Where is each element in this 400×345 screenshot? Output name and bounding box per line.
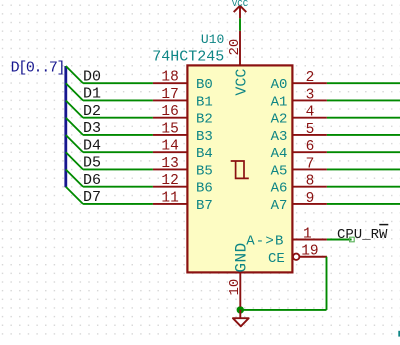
bus entry D4 bbox=[66, 135, 83, 152]
wire pin1 to CPU_RW bbox=[327, 239, 352, 241]
svg-text:11: 11 bbox=[161, 190, 178, 206]
pin 3 line (A1) bbox=[292, 99, 327, 101]
pin 15 line (B3) bbox=[153, 134, 188, 136]
svg-text:D5: D5 bbox=[83, 155, 101, 172]
svg-text:9: 9 bbox=[306, 191, 315, 207]
svg-text:VCC: VCC bbox=[232, 0, 249, 9]
wire A5 to edge bbox=[327, 168, 400, 170]
svg-text:D7: D7 bbox=[83, 189, 101, 206]
svg-text:A6: A6 bbox=[271, 181, 288, 197]
wire pin10 to junction bbox=[239, 307, 241, 310]
bus entry D7 bbox=[66, 187, 83, 204]
svg-text:A4: A4 bbox=[271, 146, 288, 162]
wire A2 to edge bbox=[327, 117, 400, 119]
bus entry D5 bbox=[66, 152, 83, 169]
svg-text:B1: B1 bbox=[196, 94, 213, 110]
svg-text:15: 15 bbox=[161, 121, 178, 137]
svg-text:D2: D2 bbox=[83, 103, 101, 120]
svg-text:A0: A0 bbox=[271, 77, 288, 93]
svg-text:10: 10 bbox=[227, 279, 243, 296]
VCC power symbol arrow bbox=[234, 6, 247, 19]
wire D7 bbox=[83, 203, 153, 205]
svg-text:B6: B6 bbox=[196, 181, 213, 197]
svg-text:D1: D1 bbox=[83, 86, 101, 103]
svg-text:A2: A2 bbox=[271, 112, 288, 128]
svg-text:VCC: VCC bbox=[234, 69, 251, 96]
svg-text:D[0..7]: D[0..7] bbox=[11, 60, 65, 77]
wire D4 bbox=[83, 151, 153, 153]
wire D2 bbox=[83, 117, 153, 119]
buffer glyph inside body bbox=[231, 161, 249, 178]
svg-text:18: 18 bbox=[161, 70, 178, 86]
svg-text:A5: A5 bbox=[271, 163, 288, 179]
wire A6 to edge bbox=[327, 186, 400, 188]
pin 1 line (A->B) bbox=[292, 239, 327, 241]
bus entry D6 bbox=[66, 169, 83, 186]
svg-text:5: 5 bbox=[306, 122, 315, 138]
svg-text:A->B: A->B bbox=[246, 234, 284, 250]
wire D1 bbox=[83, 99, 153, 101]
bus entry D0 bbox=[66, 66, 83, 83]
svg-text:D6: D6 bbox=[83, 172, 101, 189]
dangling end square bbox=[350, 237, 355, 242]
svg-text:19: 19 bbox=[301, 244, 318, 260]
ground symbol bbox=[233, 310, 249, 326]
svg-text:8: 8 bbox=[306, 174, 315, 190]
pin 10 line (GND) bbox=[239, 272, 241, 307]
wire D6 bbox=[83, 186, 153, 188]
bus entry D1 bbox=[66, 83, 83, 100]
overbar on W bbox=[379, 224, 388, 226]
pin 20 line (VCC) bbox=[239, 31, 241, 66]
pin 19 invert bubble bbox=[293, 254, 299, 260]
svg-text:3: 3 bbox=[306, 87, 315, 103]
svg-text:A1: A1 bbox=[271, 94, 288, 110]
svg-text:13: 13 bbox=[161, 156, 178, 172]
svg-text:D4: D4 bbox=[83, 137, 101, 154]
wire bottom horizontal bbox=[240, 309, 326, 311]
svg-text:2: 2 bbox=[306, 70, 315, 86]
pin 5 line (A3) bbox=[292, 134, 327, 136]
svg-text:7: 7 bbox=[306, 156, 315, 172]
pin 9 line (A7) bbox=[292, 203, 327, 205]
pin 16 line (B2) bbox=[153, 117, 188, 119]
clipped teal mark at right edge bbox=[398, 331, 400, 337]
junction bbox=[237, 306, 244, 313]
svg-text:17: 17 bbox=[161, 87, 178, 103]
svg-text:A7: A7 bbox=[271, 198, 288, 214]
svg-text:B2: B2 bbox=[196, 112, 213, 128]
wire D0 bbox=[83, 82, 153, 84]
pin 7 line (A5) bbox=[292, 168, 327, 170]
pin 4 line (A2) bbox=[292, 117, 327, 119]
svg-text:4: 4 bbox=[306, 105, 315, 121]
wire D3 bbox=[83, 134, 153, 136]
pin 14 line (B4) bbox=[153, 151, 188, 153]
svg-text:CE: CE bbox=[268, 251, 285, 267]
wire A7 to edge bbox=[327, 203, 400, 205]
svg-text:D0: D0 bbox=[83, 68, 101, 85]
bus entry D2 bbox=[66, 100, 83, 117]
pin 8 line (A6) bbox=[292, 186, 327, 188]
wire CE vertical bbox=[326, 257, 328, 310]
pin 19 line (CE) bbox=[300, 256, 327, 258]
svg-text:6: 6 bbox=[306, 139, 315, 155]
pin 11 line (B7) bbox=[153, 203, 188, 205]
pin 18 line (B0) bbox=[153, 82, 188, 84]
wire A1 to edge bbox=[327, 99, 400, 101]
svg-text:A3: A3 bbox=[271, 129, 288, 145]
svg-text:B4: B4 bbox=[196, 146, 213, 162]
bus entry D3 bbox=[66, 118, 83, 135]
wire A3 to edge bbox=[327, 134, 400, 136]
wire A4 to edge bbox=[327, 151, 400, 153]
svg-text:14: 14 bbox=[161, 139, 178, 155]
svg-text:16: 16 bbox=[161, 104, 178, 120]
svg-text:CPU_RW: CPU_RW bbox=[337, 227, 388, 243]
svg-text:74HCT245: 74HCT245 bbox=[152, 49, 224, 66]
svg-text:1: 1 bbox=[303, 226, 312, 242]
IC U1 74HCT245 body bbox=[187, 65, 292, 272]
svg-text:B7: B7 bbox=[196, 198, 213, 214]
bus D[0..7] bbox=[64, 66, 67, 187]
svg-text:12: 12 bbox=[161, 173, 178, 189]
svg-text:D3: D3 bbox=[83, 120, 101, 137]
wire A0 to edge bbox=[327, 82, 400, 84]
pin 2 line (A0) bbox=[292, 82, 327, 84]
svg-text:GND: GND bbox=[233, 242, 251, 272]
svg-text:20: 20 bbox=[227, 39, 243, 56]
svg-text:B0: B0 bbox=[196, 77, 213, 93]
svg-text:U10: U10 bbox=[201, 32, 224, 47]
pin 13 line (B5) bbox=[153, 168, 188, 170]
pin 12 line (B6) bbox=[153, 186, 188, 188]
pin 6 line (A4) bbox=[292, 151, 327, 153]
pin 17 line (B1) bbox=[153, 99, 188, 101]
svg-text:B3: B3 bbox=[196, 129, 213, 145]
wire D5 bbox=[83, 168, 153, 170]
svg-text:B5: B5 bbox=[196, 163, 213, 179]
wire VCC symbol to pin20 bbox=[239, 18, 241, 31]
